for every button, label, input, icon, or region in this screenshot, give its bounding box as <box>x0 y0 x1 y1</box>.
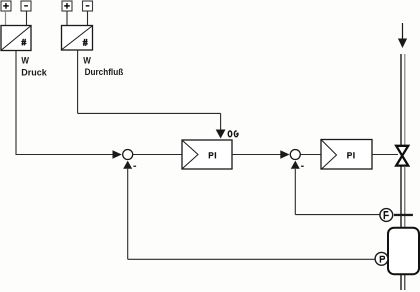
wire U1 output down <box>15 51 17 155</box>
wire U2 horizontal to OG drop <box>78 112 221 114</box>
controller PI1 <box>182 140 232 169</box>
arrowhead OG into PI1 <box>216 130 226 139</box>
converter block W2 plus terminal <box>62 1 72 11</box>
converter block W2 minus terminal <box>83 1 93 11</box>
wire U2 output down <box>77 50 79 113</box>
arrowhead feedback into S2 bottom <box>291 161 300 169</box>
inflow arrow at top of pipe <box>398 23 407 48</box>
arrowhead into S1 <box>113 150 122 158</box>
pipe upper segment <box>401 54 405 146</box>
label minus at S2 <box>301 166 304 167</box>
converter block W1 minus terminal <box>21 1 31 11</box>
controller PI2 <box>321 140 372 170</box>
A/D converter box U2 (Durchfluss setpoint) <box>62 26 93 51</box>
converter block W1 plus terminal <box>1 1 11 11</box>
valve V1 <box>396 146 408 166</box>
arrowhead into S2 <box>280 150 289 158</box>
svg-text:Durchfluß: Durchfluß <box>85 67 124 77</box>
pipe lower segment below tank <box>401 274 405 290</box>
wire S2 to PI2 <box>301 154 322 156</box>
wire PI1 to summing junction S2 <box>232 154 282 156</box>
label W Durchfluss <box>83 55 123 76</box>
pressure transmitter P <box>375 252 388 265</box>
wire OG drop down <box>220 113 222 130</box>
arrowhead feedback into S1 bottom <box>123 161 132 169</box>
feedback wire F to S2 <box>295 214 380 216</box>
A/D converter box U1 (Druck setpoint) <box>1 26 31 51</box>
wire W2 minus to box <box>87 11 89 26</box>
feedback wire S2 down <box>294 169 296 215</box>
wire W1 plus to box <box>5 11 7 26</box>
pipe middle segment <box>401 166 405 228</box>
wire U1 to summing junction S1 <box>16 154 114 156</box>
wire W2 plus to box <box>66 11 68 26</box>
wire W1 minus to box <box>26 11 28 26</box>
feedback wire P to S1 <box>128 258 375 260</box>
wire S1 to PI1 <box>133 154 182 156</box>
svg-text:Druck: Druck <box>21 67 48 77</box>
summing junction S1 <box>123 150 133 160</box>
feedback wire S1 down <box>127 169 129 259</box>
svg-text:W: W <box>21 56 29 66</box>
label minus at S1 <box>133 166 136 167</box>
flow sensor tick across pipe <box>394 214 413 216</box>
summing junction S2 <box>290 150 300 160</box>
flow transmitter F <box>380 209 393 222</box>
wire PI2 to valve <box>372 154 398 156</box>
label OG <box>228 130 239 136</box>
svg-text:W: W <box>83 55 91 65</box>
tank B1 <box>388 228 419 275</box>
label W Druck <box>21 56 48 78</box>
